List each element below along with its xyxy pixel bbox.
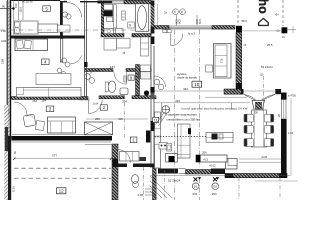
svg-text:2,02: 2,02 bbox=[1, 30, 6, 33]
label room 12 bbox=[57, 188, 66, 194]
fireplace stove dining bbox=[252, 100, 265, 110]
window bath top bbox=[112, 1, 124, 4]
wire top wall room5 edge bbox=[11, 0, 60, 1]
wire dining bottom wall bbox=[225, 174, 287, 178]
svg-text:2x16: 2x16 bbox=[262, 155, 268, 159]
floor drain pantry bbox=[144, 90, 149, 95]
axis dashdot horizontal y30 bbox=[0, 29, 151, 31]
wc axis dashed bbox=[143, 167, 145, 200]
axis dash bottom x164 bbox=[164, 170, 166, 200]
D1 column symbol bbox=[194, 177, 198, 181]
D2 column symbol bbox=[213, 177, 217, 181]
svg-text:20: 20 bbox=[277, 113, 281, 117]
stairs box hall2 bbox=[85, 122, 113, 135]
svg-text:(5): (5) bbox=[260, 73, 263, 77]
kitchen island vertical bbox=[178, 124, 191, 158]
svg-text:a 4750: a 4750 bbox=[288, 94, 296, 98]
bathtub bbox=[136, 4, 149, 32]
svg-text:53 24x24: 53 24x24 bbox=[261, 65, 273, 69]
bed room4 bbox=[15, 39, 48, 51]
label room 4 bbox=[42, 59, 50, 65]
svg-text:26,5: 26,5 bbox=[267, 43, 273, 47]
dim line hall y119 bbox=[86, 118, 148, 120]
wire left wall outer face line bbox=[5, 1, 8, 113]
svg-text:kocioł gazowy dwufunkcyjny wis: kocioł gazowy dwufunkcyjny wiszący 24 kW bbox=[182, 107, 248, 111]
svg-text:fo ᴓ 3: fo ᴓ 3 bbox=[188, 32, 196, 36]
wire living west face line bbox=[157, 4, 159, 26]
shelf closet corridor right bbox=[141, 37, 149, 56]
bed room4 rug bbox=[36, 74, 71, 85]
left dim strip lines bbox=[13, 0, 15, 35]
svg-text:206: 206 bbox=[202, 151, 207, 155]
wire bath tall cabinet right bbox=[114, 5, 117, 29]
wire roof overhang dashes top-right bbox=[237, 0, 239, 25]
svg-text:Ø15: Ø15 bbox=[193, 193, 198, 196]
svg-text:D2: D2 bbox=[213, 185, 217, 189]
toilet wc bbox=[132, 175, 139, 184]
axis dash hall x124.7 bbox=[124, 95, 126, 137]
svg-text:442: 442 bbox=[183, 87, 188, 91]
curtain boxes below window bbox=[163, 30, 167, 33]
ticks 577 dim bbox=[13, 157, 16, 160]
toilet room9 bbox=[108, 81, 116, 92]
wire leader lines boiler bbox=[156, 112, 165, 125]
wire top wall living right hatched bbox=[212, 26, 235, 30]
label room 10 bbox=[192, 81, 202, 87]
window dim stack 1 bbox=[175, 15, 177, 26]
wire dining right wall top black bbox=[281, 93, 287, 100]
wire room4-room3 wall bbox=[11, 97, 88, 100]
column far NE bbox=[282, 27, 288, 33]
svg-text:264: 264 bbox=[33, 99, 38, 103]
wire room3 terrace black wall bbox=[12, 134, 111, 136]
wire wc right wall hatched bbox=[153, 167, 157, 200]
stove black square kitchen bbox=[166, 154, 178, 163]
svg-text:415: 415 bbox=[118, 117, 123, 121]
wire dim line y97 bbox=[205, 96, 247, 98]
svg-text:293: 293 bbox=[95, 117, 100, 121]
sofa room3 bbox=[48, 117, 76, 133]
bench room1 bbox=[120, 152, 140, 162]
svg-text:i zasobnikiem c.w.u 150 litra: i zasobnikiem c.w.u 150 litra bbox=[166, 118, 200, 122]
svg-text:2x14: 2x14 bbox=[93, 102, 99, 105]
column NE corner living bbox=[236, 26, 242, 33]
label room 5 bbox=[43, 6, 51, 12]
terrace dashed line 2 bbox=[14, 177, 111, 179]
closet room4 bbox=[17, 88, 82, 98]
svg-text:Ø15: Ø15 bbox=[212, 193, 217, 196]
svg-text:12: 12 bbox=[59, 189, 65, 194]
svg-text:2,48: 2,48 bbox=[138, 193, 144, 197]
ramp diagonal lines bbox=[150, 176, 172, 198]
kitchen boxes lower bbox=[159, 143, 168, 150]
wire top wall bath right hatched bbox=[124, 0, 151, 4]
wire hall1 west wall vertical hatched bbox=[112, 144, 118, 200]
svg-text:175: 175 bbox=[131, 33, 136, 37]
label room 2 bbox=[100, 105, 107, 110]
svg-text:2,02: 2,02 bbox=[8, 109, 12, 115]
svg-text:ho: ho bbox=[256, 0, 270, 14]
wire bath bottom wall right bbox=[132, 34, 151, 38]
svg-text:+0,02: +0,02 bbox=[209, 164, 216, 168]
svg-text:147: 147 bbox=[110, 65, 115, 69]
svg-text:2,63: 2,63 bbox=[85, 98, 91, 102]
wire thin line dining south bbox=[239, 158, 282, 160]
label room 9 bbox=[128, 75, 134, 80]
door arc hall top bbox=[67, 3, 82, 18]
svg-text:150: 150 bbox=[14, 3, 18, 8]
logo house icon bbox=[259, 18, 269, 25]
chairs dining right bbox=[264, 114, 274, 146]
dim tick right of NE column bbox=[287, 29, 297, 31]
small box kitchen bbox=[167, 144, 172, 152]
svg-text:(25): (25) bbox=[19, 7, 23, 12]
svg-text:BC5: BC5 bbox=[179, 19, 182, 24]
shower box bath bbox=[128, 22, 134, 28]
wire room9 bottom wall bbox=[99, 96, 124, 99]
wire left insulation strip bbox=[4, 105, 8, 200]
wire room9 right wall bbox=[136, 65, 140, 96]
radiator bath bbox=[122, 11, 125, 20]
text block borders bbox=[161, 103, 163, 121]
window dim stack 2 bbox=[196, 15, 198, 26]
dim line living y91 bbox=[154, 90, 281, 92]
wire living-dining divider wall hatched bbox=[224, 89, 242, 94]
svg-text:4: 4 bbox=[44, 60, 47, 65]
svg-text:9: 9 bbox=[129, 24, 131, 28]
kitchen counter strip bbox=[155, 112, 161, 168]
wire top wall bath left piece bbox=[98, 1, 113, 4]
svg-text:276: 276 bbox=[220, 58, 224, 63]
wire dining right wall lower bbox=[281, 119, 287, 177]
wire top wall hall bbox=[60, 1, 67, 2]
dim line bottom y175 bbox=[150, 174, 290, 176]
bath cabinets bbox=[104, 5, 113, 10]
door arc room9 top bbox=[89, 70, 100, 75]
wire hall-room9 wall y70 bbox=[85, 69, 114, 72]
terrace dashed line 1 bbox=[14, 167, 111, 169]
door arc room4 bbox=[70, 56, 82, 65]
sideboard dining south bbox=[196, 155, 227, 162]
coffee table room3 bbox=[35, 120, 44, 130]
wire wall hall-room4 lower bbox=[61, 39, 63, 63]
svg-text:230: 230 bbox=[254, 111, 259, 115]
wire left outer wall bbox=[7, 0, 8, 139]
wire living east wall hatched bbox=[236, 32, 242, 89]
svg-text:415: 415 bbox=[175, 99, 180, 103]
label room 1 bbox=[130, 137, 137, 143]
chairs dining left bbox=[244, 114, 254, 146]
wire wall x151 lower section bbox=[150, 34, 152, 169]
armchair room3 bbox=[23, 114, 36, 127]
door arc room3 left bbox=[14, 102, 27, 115]
wire terrace slab edge line top bbox=[241, 30, 281, 32]
svg-text:BC5: BC5 bbox=[199, 19, 202, 24]
door french doors dining bbox=[244, 94, 258, 101]
svg-text:52 24x24: 52 24x24 bbox=[168, 179, 181, 183]
sink room9 bbox=[120, 88, 128, 95]
desk room5 bbox=[38, 24, 58, 33]
boiler circle bbox=[162, 106, 170, 114]
svg-text:+24: +24 bbox=[275, 14, 280, 17]
dim line y103 bbox=[154, 102, 250, 104]
wire dining door wall piece right bbox=[275, 89, 281, 94]
wire wall room5-room4 bbox=[11, 36, 85, 39]
svg-text:3,68: 3,68 bbox=[1, 58, 5, 64]
door arc living entry bbox=[171, 34, 183, 46]
svg-text:2x: 2x bbox=[164, 11, 168, 15]
door circles living west bbox=[154, 79, 160, 85]
washer bath bbox=[104, 28, 114, 33]
wire dining door wall piece left bbox=[241, 89, 244, 94]
axis dash right mid bbox=[263, 76, 265, 113]
wire wc top wall bbox=[117, 164, 127, 168]
wire dotted floor line kitchen bbox=[155, 135, 207, 137]
svg-text:(2): (2) bbox=[277, 30, 280, 33]
svg-text:5,16: 5,16 bbox=[12, 186, 16, 192]
svg-text:D1: D1 bbox=[194, 185, 198, 189]
joint black hall wall bbox=[84, 62, 88, 67]
axis dashdot vertical B bbox=[199, 30, 201, 201]
axis dash bottom x239 bbox=[238, 177, 240, 200]
bed room5 bbox=[14, 21, 38, 34]
wire top wall living left hatched bbox=[154, 26, 169, 30]
wire wing divider wall vertical x151 bbox=[151, 1, 155, 6]
axis dash bottom x280 bbox=[279, 178, 281, 201]
wire wall room5-hall vertical bbox=[60, 3, 63, 37]
wire bath left wall bbox=[101, 4, 104, 34]
window living top bbox=[169, 26, 212, 29]
wc corner lines bbox=[145, 188, 153, 190]
door top hall gap jamb bbox=[80, 1, 98, 2]
toilet bath bbox=[116, 29, 124, 34]
closet boxes corridor bbox=[104, 39, 117, 51]
wire bath bottom wall left bbox=[101, 34, 124, 38]
door circles room4 bbox=[62, 58, 67, 63]
wire left terrace wall dark bbox=[5, 127, 8, 151]
bottom dim ticks black bbox=[198, 177, 201, 180]
dining table bbox=[252, 110, 267, 147]
side table living bbox=[206, 65, 213, 72]
svg-text:577: 577 bbox=[52, 154, 57, 158]
axis dashdot vertical A bbox=[174, 30, 176, 201]
bench steps dining SW bbox=[226, 159, 238, 170]
hall door circles bbox=[85, 74, 91, 80]
svg-text:10: 10 bbox=[194, 82, 200, 87]
svg-text:x150: x150 bbox=[1, 40, 7, 43]
door arc room5 bbox=[62, 12, 67, 17]
sofa living east wall bbox=[214, 44, 232, 79]
window dining right wall bbox=[282, 100, 286, 120]
door circles hall low bbox=[57, 68, 62, 73]
svg-text:58,2: 58,2 bbox=[242, 19, 248, 23]
radiator room9 bbox=[124, 76, 127, 82]
svg-text:+0,5: +0,5 bbox=[203, 158, 209, 162]
wire pilaster room1 east bbox=[146, 131, 150, 143]
door arc room1 bbox=[118, 150, 131, 163]
sideboard kitchen east bbox=[206, 133, 233, 143]
svg-text:z naczyniem poprzecznym: z naczyniem poprzecznym bbox=[166, 113, 198, 117]
svg-text:184: 184 bbox=[42, 99, 47, 103]
label room 3 bbox=[46, 106, 54, 112]
door arc room3 entry bbox=[89, 100, 103, 114]
pantry shelves bbox=[141, 65, 151, 72]
svg-text:wywiew: wywiew bbox=[177, 72, 188, 76]
wire hall-bath vertical wall bbox=[84, 1, 86, 100]
wire wall end black x151 y92 bbox=[150, 87, 154, 93]
wire kitchen bottom wall bbox=[158, 169, 178, 174]
svg-text:5: 5 bbox=[45, 6, 48, 11]
svg-text:4,03: 4,03 bbox=[79, 98, 85, 102]
svg-text:90 120 90: 90 120 90 bbox=[22, 1, 33, 4]
door arc room9 gap bbox=[114, 72, 127, 85]
svg-text:3: 3 bbox=[49, 107, 52, 112]
door leaf room1 bbox=[140, 157, 147, 161]
